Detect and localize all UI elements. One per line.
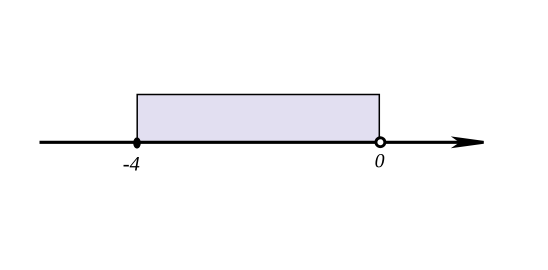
- closed endpoint dot at -4: [133, 137, 141, 148]
- arrowhead at right end: [451, 136, 484, 148]
- label 0: [375, 154, 384, 167]
- number line axis: [40, 141, 466, 144]
- open endpoint circle at 0: [376, 138, 385, 147]
- label -4: [124, 157, 140, 170]
- shaded interval region [-4,0): [137, 95, 379, 143]
